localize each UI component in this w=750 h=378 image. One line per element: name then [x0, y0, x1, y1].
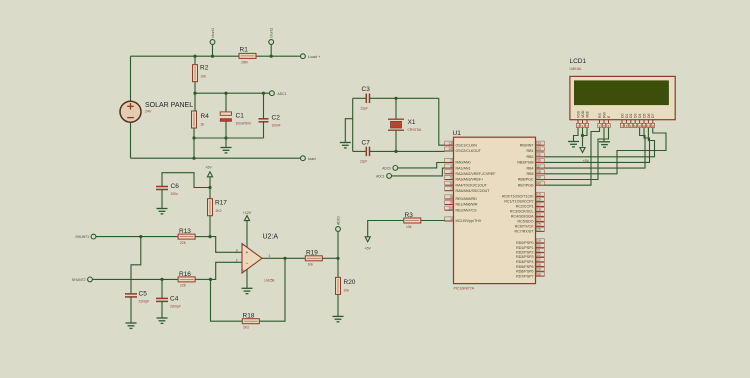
svg-text:ADC0: ADC0	[337, 216, 341, 225]
svg-text:8: 8	[450, 195, 452, 199]
pin 30 RD7/PSP7	[516, 272, 544, 278]
resistor R16	[178, 277, 195, 282]
svg-text:21: 21	[537, 249, 541, 253]
svg-text:22pF: 22pF	[361, 107, 368, 111]
value C4 2200pF	[170, 305, 181, 309]
wire R13 to node	[195, 236, 210, 238]
svg-text:RB1: RB1	[527, 149, 534, 153]
wire C7 to OSC2	[370, 150, 445, 152]
svg-text:RB2: RB2	[527, 155, 534, 159]
svg-text:C2: C2	[272, 115, 281, 122]
svg-text:+12V: +12V	[243, 211, 252, 215]
svg-text:RA3/AN3/VREF+: RA3/AN3/VREF+	[456, 178, 484, 182]
ground C5	[126, 323, 137, 328]
wire OSC1 drop	[439, 98, 445, 145]
svg-text:C7: C7	[362, 140, 371, 147]
terminal SHUNT2	[72, 277, 92, 282]
wire RW to ground	[603, 128, 605, 142]
pin 8 RE0/AN5/RD	[445, 195, 478, 201]
svg-text:16: 16	[537, 198, 541, 202]
svg-text:17: 17	[537, 203, 541, 207]
power +12V	[243, 211, 252, 248]
power +5V MCLR	[364, 221, 404, 251]
LCD pin 2 VDD	[581, 110, 585, 128]
value C6 100n	[171, 192, 178, 196]
pin 28 RD5/PSP5	[516, 263, 544, 269]
svg-text:100uF/50V: 100uF/50V	[236, 122, 252, 126]
svg-text:10k: 10k	[344, 289, 350, 293]
svg-text:LM258: LM258	[265, 279, 275, 283]
pin 25 RC6/TX/CK	[515, 222, 545, 228]
wire ADC0 to RA0	[398, 163, 445, 168]
battery SOLAR PANEL 24V	[120, 101, 141, 122]
value R13 22K	[180, 241, 187, 245]
svg-text:10: 10	[448, 206, 452, 210]
svg-text:2K2: 2K2	[243, 326, 249, 330]
wire bottom rail	[131, 157, 301, 159]
pin 29 RD6/PSP6	[516, 267, 544, 273]
svg-text:22K: 22K	[180, 241, 187, 245]
capacitor C7	[366, 147, 369, 157]
svg-text:shunt2: shunt2	[270, 28, 274, 38]
pin 1 number	[269, 254, 271, 258]
svg-text:−: −	[246, 260, 249, 265]
svg-text:RB5: RB5	[527, 172, 534, 176]
node junction C1 top	[224, 92, 227, 95]
node junction R17 top	[208, 186, 211, 189]
label shunt2	[270, 28, 274, 38]
resistor R4	[192, 93, 197, 138]
node junction ADC0 tap	[336, 257, 339, 260]
svg-text:LM016L: LM016L	[570, 67, 582, 71]
wire bottom of divider	[194, 137, 264, 139]
label C4	[170, 296, 179, 303]
wire C7 rail	[353, 150, 367, 152]
pin 35 RB2	[527, 153, 545, 159]
svg-text:9: 9	[450, 201, 452, 205]
node junction gnd C1	[224, 136, 227, 139]
svg-text:RC3/SCK/SCL: RC3/SCK/SCL	[510, 210, 534, 214]
svg-text:R17: R17	[215, 200, 227, 207]
svg-text:23: 23	[537, 213, 541, 217]
ground R20	[333, 316, 344, 321]
crystal X1	[388, 98, 404, 151]
svg-text:RD7/PSP7: RD7/PSP7	[516, 274, 533, 278]
svg-text:24V: 24V	[145, 110, 152, 114]
svg-text:SHUNT2: SHUNT2	[72, 278, 86, 282]
svg-text:+: +	[246, 250, 249, 255]
svg-text:2: 2	[450, 159, 452, 163]
svg-text:RB0/INT: RB0/INT	[520, 143, 535, 147]
svg-text:D1: D1	[625, 113, 629, 118]
pin 34 RB1	[527, 147, 545, 153]
wire R3 to MCLR	[421, 220, 445, 222]
node junction R4 top	[193, 92, 196, 95]
label C1	[236, 113, 245, 120]
svg-text:RC7/RX/DT: RC7/RX/DT	[515, 230, 535, 234]
LCD1 screen	[574, 80, 669, 105]
terminal shunt2	[269, 40, 274, 57]
wire VEE join	[583, 128, 588, 136]
label R1	[240, 47, 249, 54]
pin 24 RC5/SDO	[518, 217, 545, 223]
wire shunt2 to R16	[92, 278, 178, 280]
svg-text:X1: X1	[408, 119, 416, 126]
svg-text:29: 29	[537, 268, 541, 272]
value R20 10k	[344, 289, 350, 293]
pin 10 RE2/AN7/CS	[445, 206, 478, 212]
pin 5 RA3/AN3/VREF+	[445, 175, 484, 181]
value C2 100nF	[272, 124, 281, 128]
svg-text:RD0/PSP0: RD0/PSP0	[516, 241, 533, 245]
svg-text:C1: C1	[236, 113, 245, 120]
svg-text:35: 35	[537, 153, 541, 157]
wire R18 to inverting node	[211, 279, 243, 321]
node junction bottom rail	[192, 157, 195, 160]
wire to pin3	[210, 237, 242, 253]
svg-text:2K2: 2K2	[216, 209, 222, 213]
pin 8 number	[242, 243, 244, 247]
LCD pin 11 D4	[638, 113, 642, 127]
svg-text:D7: D7	[651, 113, 655, 118]
svg-text:5: 5	[450, 176, 452, 180]
svg-text:38: 38	[537, 170, 541, 174]
LCD pin 12 D5	[642, 113, 646, 127]
label C6	[171, 183, 180, 190]
svg-text:PIC16F877A: PIC16F877A	[454, 287, 475, 291]
ground RW	[599, 142, 610, 147]
svg-text:2200pF: 2200pF	[170, 305, 181, 309]
capacitor C2	[259, 93, 269, 138]
svg-text:R3: R3	[405, 212, 414, 219]
label SOLAR PANEL	[145, 102, 193, 109]
label R18	[243, 313, 255, 320]
resistor R19	[305, 256, 322, 261]
svg-text:D4: D4	[638, 113, 642, 118]
svg-text:U1: U1	[453, 130, 462, 137]
svg-text:load: load	[308, 156, 316, 161]
node junction R17 bottom	[208, 235, 211, 238]
resistor R18	[242, 319, 259, 324]
LCD pin 14 D7	[651, 113, 655, 127]
LCD pin 8 D1	[625, 113, 629, 127]
svg-text:10k: 10k	[201, 75, 207, 79]
svg-text:C4: C4	[170, 296, 179, 303]
wire R16 to node	[195, 278, 210, 280]
svg-text:RC6/TX/CK: RC6/TX/CK	[515, 225, 534, 229]
node junction C4 tap	[160, 278, 163, 281]
label R19	[306, 250, 318, 257]
svg-text:VSS: VSS	[576, 110, 580, 118]
pin 40 RB7/PGD	[518, 181, 545, 187]
pin 4 RA2/AN2/VREF-/CVREF	[445, 170, 497, 176]
LCD pin 6 E	[607, 115, 611, 128]
node junction shunt1 tap	[139, 235, 142, 238]
svg-text:RC4/SDI/SDA: RC4/SDI/SDA	[511, 215, 534, 219]
svg-text:D6: D6	[647, 113, 651, 118]
value C7 22pF	[360, 160, 367, 164]
resistor R3	[404, 218, 421, 223]
svg-text:24: 24	[537, 218, 541, 222]
LCD pin 5 RW	[602, 112, 606, 128]
svg-text:2k: 2k	[201, 123, 205, 127]
svg-text:+5V: +5V	[364, 247, 371, 251]
svg-text:RA1/AN1: RA1/AN1	[456, 166, 471, 170]
svg-text:4: 4	[450, 170, 452, 174]
microcontroller U1 body	[454, 137, 536, 283]
svg-text:RD5/PSP5: RD5/PSP5	[516, 265, 533, 269]
capacitor C3	[366, 94, 369, 104]
wire VSS to ground	[574, 128, 579, 142]
label X1	[408, 119, 416, 126]
wire C3 to OSC1	[370, 97, 439, 99]
value R17 2K2	[216, 209, 222, 213]
wire VDD	[582, 128, 584, 147]
node junction shunt1	[211, 55, 214, 58]
terminal ADC1 top	[270, 91, 287, 96]
svg-text:+5V: +5V	[205, 165, 212, 169]
svg-text:C6: C6	[171, 183, 180, 190]
resistor R17	[208, 188, 213, 237]
svg-text:SHUNT1: SHUNT1	[75, 235, 89, 239]
svg-text:2: 2	[236, 258, 238, 262]
svg-text:RE1/AN6/WR: RE1/AN6/WR	[456, 203, 478, 207]
svg-text:18: 18	[537, 208, 541, 212]
terminal shunt1	[210, 40, 215, 57]
svg-text:20: 20	[537, 244, 541, 248]
value R19 10k	[308, 263, 314, 267]
LCD1 body	[570, 76, 675, 119]
pin 7 RA5/AN4/SS/C2OUT	[445, 187, 491, 193]
value R1 0.05R	[241, 61, 249, 65]
value R2 10k	[201, 75, 207, 79]
svg-text:34: 34	[537, 147, 541, 151]
value C5 2200pF	[139, 300, 150, 304]
svg-text:R1: R1	[240, 47, 249, 54]
svg-text:10k: 10k	[406, 225, 412, 229]
wire C6 jog	[162, 173, 210, 188]
label R20	[344, 279, 356, 286]
capacitor C6	[156, 187, 168, 209]
svg-text:R19: R19	[306, 250, 318, 257]
label U2:A	[263, 234, 279, 241]
pin 13 OSC1/CLKIN	[445, 141, 478, 147]
svg-text:C3: C3	[362, 86, 371, 93]
pin 9 RE1/AN6/WR	[445, 200, 478, 206]
pin 6 RA4/T0CKI/C1OUT	[445, 181, 488, 187]
wire R19 to R20	[322, 257, 338, 259]
pin 21 RD2/PSP2	[516, 248, 544, 254]
pin 36 RB3/PGM	[517, 158, 544, 164]
label ADC0 left	[337, 216, 341, 225]
svg-text:25: 25	[537, 223, 541, 227]
label R4	[201, 113, 210, 120]
svg-text:RA0/AN0: RA0/AN0	[456, 161, 471, 165]
LCD pin 10 D3	[634, 113, 638, 127]
svg-text:RE2/AN7/CS: RE2/AN7/CS	[456, 208, 478, 212]
node junction X1 top	[394, 97, 397, 100]
terminal Load+	[301, 54, 322, 59]
pin 26 RC7/RX/DT	[515, 227, 545, 233]
label C5	[139, 291, 148, 298]
wire solar bottom	[130, 122, 132, 158]
LCD pin 4 RS	[598, 112, 602, 127]
pin 23 RC4/SDI/SDA	[511, 212, 545, 218]
svg-text:ADC1: ADC1	[278, 92, 287, 96]
pin 3 number	[236, 248, 238, 252]
svg-text:VDD: VDD	[581, 110, 585, 118]
wire D5 to RB3	[545, 128, 650, 163]
pin 14 OSC2/CLKOUT	[445, 147, 482, 153]
svg-text:OSC1/CLKIN: OSC1/CLKIN	[456, 143, 478, 147]
wire ADC1 rail	[195, 92, 270, 94]
wire to pin2	[211, 262, 243, 279]
pin 16 RC1/T1OSI/CCP2	[504, 197, 544, 203]
svg-text:22: 22	[537, 253, 541, 257]
svg-text:RC0/T1OSO/T1CKI: RC0/T1OSO/T1CKI	[502, 195, 534, 199]
svg-text:10k: 10k	[308, 263, 314, 267]
node junction X1 bottom	[394, 150, 397, 153]
pin 17 RC2/CCP1	[516, 202, 545, 208]
svg-text:ADC0: ADC0	[382, 166, 391, 170]
node junction shunt2	[270, 55, 273, 58]
wire E to RB6	[545, 128, 609, 180]
svg-text:RB6/PGC: RB6/PGC	[518, 178, 534, 182]
wire feedback	[260, 258, 286, 321]
svg-text:D2: D2	[629, 113, 633, 118]
pin 2 RA0/AN0	[445, 158, 471, 164]
wire C3 rail	[353, 97, 367, 99]
svg-text:VEE: VEE	[585, 110, 589, 118]
LCD pin 1 VSS	[576, 110, 580, 127]
wire RS to RB7	[545, 128, 600, 186]
svg-text:R2: R2	[200, 65, 209, 72]
wire shunt1 to R13	[96, 236, 179, 238]
pin 37 RB4	[527, 164, 545, 170]
svg-text:28: 28	[537, 263, 541, 267]
svg-text:100nF: 100nF	[272, 124, 281, 128]
terminal ADC0 mid	[382, 166, 397, 171]
svg-text:RW: RW	[602, 112, 606, 118]
resistor R20	[336, 258, 341, 316]
svg-text:33: 33	[537, 141, 541, 145]
pin 33 RB0/INT	[520, 141, 545, 147]
pin 38 RB5	[527, 170, 545, 176]
wire D4 to RB4	[545, 128, 646, 168]
svg-text:MCLR/Vpp/THV: MCLR/Vpp/THV	[456, 219, 482, 223]
label C2	[272, 115, 281, 122]
svg-text:RB3/PGM: RB3/PGM	[517, 161, 533, 165]
svg-text:RE0/AN5/RD: RE0/AN5/RD	[456, 197, 478, 201]
label C7	[362, 140, 371, 147]
pin 20 RD1/PSP1	[516, 244, 544, 250]
svg-text:1: 1	[269, 254, 271, 258]
pin 19 RD0/PSP0	[516, 239, 544, 245]
svg-text:RA2/AN2/VREF-/CVREF: RA2/AN2/VREF-/CVREF	[456, 172, 497, 176]
value C3 22pF	[361, 107, 368, 111]
pin 27 RD4/PSP4	[516, 258, 544, 264]
pin 22 RD3/PSP3	[516, 253, 544, 259]
resistor R13	[178, 234, 195, 239]
svg-text:RA4/T0CKI/C1OUT: RA4/T0CKI/C1OUT	[456, 183, 488, 187]
svg-text:RD3/PSP3: RD3/PSP3	[516, 255, 533, 259]
svg-text:C5: C5	[139, 291, 148, 298]
value LM016L	[570, 67, 582, 71]
wire shunt1 jog to C5	[131, 237, 141, 294]
pin 1 MCLR/Vpp/THV	[445, 217, 482, 223]
svg-text:3: 3	[236, 248, 238, 252]
power +5V opamp	[205, 165, 212, 187]
value PIC16F877A	[454, 287, 475, 291]
svg-text:shunt1: shunt1	[211, 28, 215, 38]
pin 15 RC0/T1OSO/T1CKI	[502, 192, 545, 198]
label U1	[453, 130, 462, 137]
svg-text:13: 13	[448, 141, 452, 145]
pin 39 RB6/PGC	[518, 175, 545, 181]
svg-text:R13: R13	[179, 228, 191, 235]
svg-text:RC5/SDO: RC5/SDO	[518, 220, 534, 224]
resistor R2	[193, 56, 198, 93]
label R3	[405, 212, 414, 219]
svg-text:14: 14	[448, 147, 452, 151]
ground C6	[157, 209, 168, 214]
label R13	[179, 228, 191, 235]
svg-text:RS: RS	[598, 112, 602, 118]
svg-text:CRYSTAL: CRYSTAL	[408, 128, 423, 132]
value R16 22K	[180, 284, 187, 288]
node junction VDD VEE	[581, 134, 584, 137]
svg-text:RB4: RB4	[527, 166, 534, 170]
svg-text:R18: R18	[243, 313, 255, 320]
label LCD1	[570, 58, 587, 65]
svg-text:R4: R4	[201, 113, 210, 120]
label R17	[215, 200, 227, 207]
pin 4 number	[242, 268, 244, 272]
svg-text:39: 39	[537, 176, 541, 180]
wire top rail	[131, 56, 301, 101]
node junction R4 bottom	[192, 136, 195, 139]
pin 2 number	[236, 258, 238, 262]
svg-text:RD4/PSP4: RD4/PSP4	[516, 260, 533, 264]
svg-text:D3: D3	[634, 113, 638, 118]
pin 3 RA1/AN1	[445, 164, 471, 170]
svg-text:D5: D5	[642, 113, 646, 118]
terminal ADC0 left	[336, 227, 341, 259]
LCD pin 13 D6	[647, 113, 651, 127]
LCD pin 7 D0	[620, 113, 624, 127]
ground C4	[157, 318, 168, 323]
pin 18 RC3/SCK/SCL	[510, 207, 545, 213]
capacitor C5	[125, 294, 137, 323]
wire D7 to RB5	[545, 128, 667, 174]
svg-text:RC1/T1OSI/CCP2: RC1/T1OSI/CCP2	[504, 200, 533, 204]
node junction feedback	[209, 278, 212, 281]
svg-text:LCD1: LCD1	[570, 58, 587, 65]
value R3 10k	[406, 225, 412, 229]
svg-text:2200pF: 2200pF	[139, 300, 150, 304]
label R16	[179, 271, 191, 278]
wire R4 to bottom rail	[193, 138, 195, 158]
svg-text:U2:A: U2:A	[263, 234, 279, 241]
node junction C2 top	[262, 92, 265, 95]
svg-text:36: 36	[537, 159, 541, 163]
svg-text:R16: R16	[179, 271, 191, 278]
ground crystal	[340, 119, 353, 148]
svg-text:15: 15	[537, 193, 541, 197]
wire D6 to RB2	[545, 128, 655, 157]
value CRYSTAL	[408, 128, 423, 132]
label R2	[200, 65, 209, 72]
